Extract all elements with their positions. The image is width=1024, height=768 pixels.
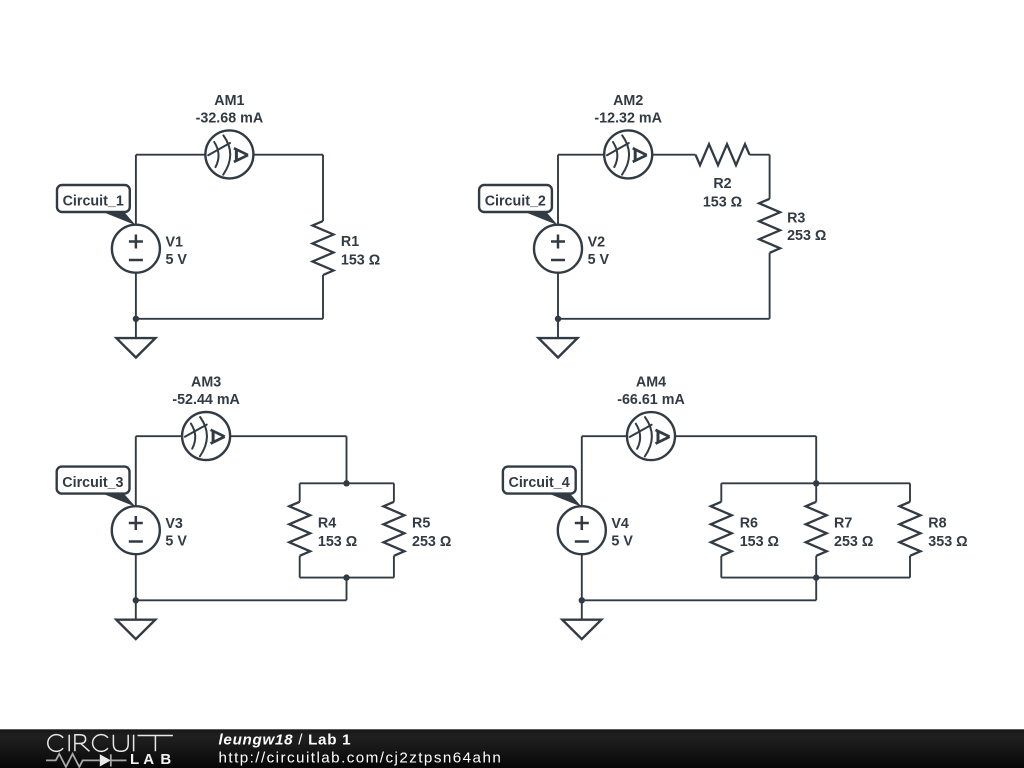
wire C3 bottom <box>136 599 347 601</box>
wire C4 R8 top lead <box>909 483 911 502</box>
ammeter AM2 <box>604 130 652 178</box>
svg-text:R6: R6 <box>740 515 758 531</box>
wire C1 left lower <box>135 273 137 319</box>
net label Circuit_2 <box>479 185 558 225</box>
wire C1 right upper <box>322 155 324 221</box>
wire C2 ground stem <box>557 319 559 338</box>
junction C2 ground node <box>555 316 561 322</box>
wire C4 ground stem <box>581 600 583 619</box>
resistor R5 <box>383 502 404 556</box>
svg-text:5 V: 5 V <box>165 534 187 550</box>
svg-text:-12.32 mA: -12.32 mA <box>594 110 662 126</box>
wire C4 bottom <box>582 599 816 601</box>
wire C4 top left <box>582 435 627 437</box>
ammeter AM4 <box>627 412 675 460</box>
wire C4 R6 top lead <box>720 483 722 502</box>
wire C2 bottom <box>558 318 770 320</box>
svg-text:L: L <box>130 751 139 768</box>
svg-text:V4: V4 <box>611 516 629 532</box>
wire C2 right upper <box>769 155 771 199</box>
svg-text:http://circuitlab.com/cj2ztpsn: http://circuitlab.com/cj2ztpsn64ahn <box>219 750 503 767</box>
wire C4 rail bottom <box>721 577 910 579</box>
wire C3 bottom feed <box>346 578 348 601</box>
svg-text:AM1: AM1 <box>214 93 244 109</box>
resistor R3 <box>759 199 780 253</box>
net label Circuit_1 <box>57 185 136 225</box>
net label Circuit_4 <box>503 467 582 507</box>
resistor R1 <box>313 221 334 275</box>
wire C3 left lower <box>135 554 137 600</box>
footer bar <box>0 729 1024 768</box>
svg-text:Circuit_2: Circuit_2 <box>485 193 546 209</box>
circuit 4 <box>503 374 968 639</box>
resistor R4 <box>289 502 310 556</box>
svg-text:R1: R1 <box>341 234 359 250</box>
wire C1 left upper <box>135 155 137 225</box>
wire C2 top left <box>558 154 604 156</box>
wire C4 left lower <box>581 554 583 600</box>
svg-text:A: A <box>143 751 154 768</box>
svg-text:5 V: 5 V <box>588 252 610 268</box>
voltage source V4 <box>558 506 606 554</box>
wire C1 top right <box>253 154 323 156</box>
wire C3 R5 top lead <box>393 483 395 502</box>
wire C1 bottom <box>136 318 323 320</box>
voltage source V2 <box>534 225 582 273</box>
wire C4 feed down <box>815 436 817 483</box>
svg-text:-66.61 mA: -66.61 mA <box>617 392 685 408</box>
wire C1 right lower <box>322 275 324 319</box>
svg-text:5 V: 5 V <box>611 534 633 550</box>
ground <box>116 338 155 357</box>
svg-text:V2: V2 <box>588 234 606 250</box>
wire C2 right lower <box>769 253 771 319</box>
voltage source V1 <box>112 225 160 273</box>
wire C4 rail top <box>721 482 910 484</box>
svg-text:AM2: AM2 <box>613 93 643 109</box>
svg-text:AM3: AM3 <box>191 374 221 390</box>
svg-text:353 Ω: 353 Ω <box>928 534 967 550</box>
svg-text:153 Ω: 153 Ω <box>740 534 779 550</box>
circuit 2 <box>479 93 826 358</box>
junction C3 ground node <box>133 597 139 603</box>
resistor R6 <box>711 502 732 556</box>
svg-text:R4: R4 <box>318 515 336 531</box>
junction C4 ground node <box>579 597 585 603</box>
wire C3 ground stem <box>135 600 137 619</box>
resistor R7 <box>806 502 827 556</box>
wire C3 R4 top lead <box>299 483 301 502</box>
wire C1 top left <box>136 154 206 156</box>
svg-text:R8: R8 <box>928 515 946 531</box>
net label Circuit_3 <box>57 467 136 507</box>
wire C3 rail top <box>300 482 394 484</box>
wire C2 top mid <box>652 154 695 156</box>
voltage source V3 <box>112 506 160 554</box>
logo wordmark LAB <box>130 751 171 768</box>
ammeter AM1 <box>205 130 253 178</box>
ammeter AM3 <box>182 412 230 460</box>
wire C4 bottom feed <box>815 578 817 601</box>
svg-text:R5: R5 <box>412 515 430 531</box>
wire C2 left lower <box>557 273 559 319</box>
wire C2 left upper <box>557 155 559 225</box>
wire C1 ground stem <box>135 319 137 338</box>
wire C3 rail bottom <box>300 577 394 579</box>
junction C3 node bottom <box>343 574 349 580</box>
svg-text:253 Ω: 253 Ω <box>412 534 451 550</box>
wire C4 R8 bottom lead <box>909 556 911 578</box>
wire C4 R6 bottom lead <box>720 556 722 578</box>
wire C3 top right <box>230 435 346 437</box>
svg-text:leungw18 / Lab 1: leungw18 / Lab 1 <box>219 731 352 748</box>
resistor R8 <box>900 502 921 556</box>
ground <box>539 338 578 357</box>
svg-text:Circuit_4: Circuit_4 <box>509 475 570 491</box>
svg-text:253 Ω: 253 Ω <box>787 228 826 244</box>
junction C4 node top <box>813 480 819 486</box>
svg-text:-52.44 mA: -52.44 mA <box>172 392 240 408</box>
svg-text:153 Ω: 153 Ω <box>703 195 742 211</box>
wire C3 R4 bottom lead <box>299 556 301 578</box>
wire C3 top left <box>136 435 182 437</box>
junction C4 node bottom <box>813 574 819 580</box>
wire C4 left upper <box>581 436 583 506</box>
svg-text:R7: R7 <box>834 515 852 531</box>
svg-text:AM4: AM4 <box>636 374 666 390</box>
wire C4 R7 top lead <box>815 483 817 502</box>
wire C4 top right <box>675 435 816 437</box>
svg-text:253 Ω: 253 Ω <box>834 534 873 550</box>
svg-text:V3: V3 <box>165 516 183 532</box>
svg-text:Circuit_1: Circuit_1 <box>63 193 124 209</box>
circuit 3 <box>57 374 452 639</box>
ground <box>116 620 155 639</box>
svg-text:153 Ω: 153 Ω <box>341 252 380 268</box>
circuit 1 <box>57 93 380 358</box>
wire C2 top right <box>750 154 770 156</box>
wire C3 feed down <box>346 436 348 483</box>
wire C3 left upper <box>135 436 137 506</box>
svg-text:Circuit_3: Circuit_3 <box>62 475 123 491</box>
logo resistor-diode glyph <box>46 754 127 767</box>
svg-text:153 Ω: 153 Ω <box>318 534 357 550</box>
ground <box>562 620 601 639</box>
svg-text:R2: R2 <box>713 176 731 192</box>
wire C4 R7 bottom lead <box>815 556 817 578</box>
svg-text:-32.68 mA: -32.68 mA <box>196 110 264 126</box>
svg-text:R3: R3 <box>787 210 805 226</box>
junction C3 node top <box>343 480 349 486</box>
junction C1 ground node <box>133 316 139 322</box>
svg-text:5 V: 5 V <box>166 252 188 268</box>
resistor R2 <box>696 144 750 165</box>
CircuitLab logo wordmark CIRCUIT (hand-drawn thin letters) <box>48 735 173 752</box>
svg-text:B: B <box>160 751 171 768</box>
wire C3 R5 bottom lead <box>393 556 395 578</box>
svg-text:V1: V1 <box>166 234 184 250</box>
